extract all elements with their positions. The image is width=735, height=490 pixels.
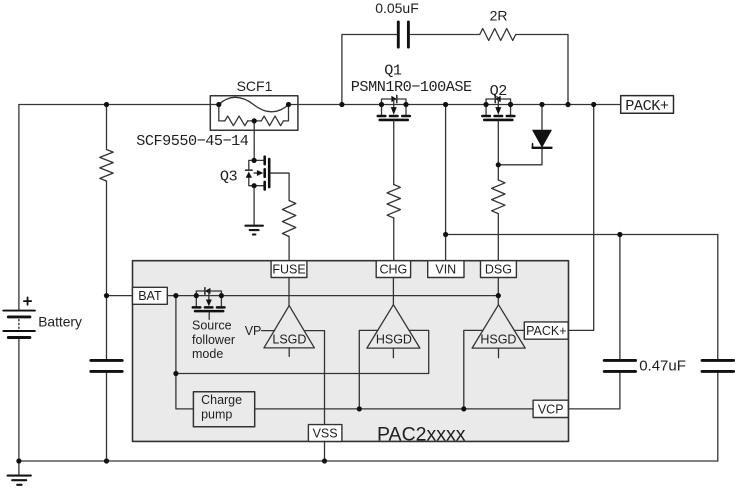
pin box PACK+ internal: [524, 322, 568, 339]
svg-text:HSGD: HSGD: [480, 333, 516, 347]
wire VP input: [262, 330, 275, 332]
resistor R-CHG: [387, 185, 400, 219]
svg-text:SCF9550−45−14: SCF9550−45−14: [136, 132, 249, 150]
svg-text:mode: mode: [192, 347, 223, 361]
resistor R-BAT: [100, 150, 113, 182]
resistor 2R: [480, 29, 516, 41]
wire top rail left: [19, 104, 219, 106]
svg-text:VCP: VCP: [538, 402, 564, 416]
resistor fuse-right: [261, 116, 283, 126]
pin box DSG: [481, 261, 517, 278]
wire top rail right: [289, 104, 621, 106]
capacitor 0.47uF: [604, 360, 635, 371]
charge pump box: [193, 392, 254, 427]
wire diode branch top: [541, 105, 543, 131]
op-amp LSGD: [264, 306, 315, 357]
wire resistor to DSG pin: [497, 214, 499, 261]
transistor Q2: [482, 95, 514, 120]
wire column2 middle: [106, 181, 108, 359]
svg-text:Battery: Battery: [38, 314, 82, 329]
wire CHG pin to HSGD1: [392, 278, 394, 305]
svg-text:CHG: CHG: [380, 263, 408, 277]
wire BAT branch down: [176, 296, 194, 409]
wire 0.47uF column bottom: [568, 373, 620, 409]
terminal PACK+: [621, 96, 674, 114]
fuse element curve: [219, 97, 289, 111]
wire HSGD2 output: [514, 329, 524, 331]
wire resistor to CHG pin: [393, 218, 395, 261]
wire battery column top: [18, 105, 20, 310]
fuse lower path right: [283, 105, 288, 121]
fuse SCF1 box: [210, 96, 298, 131]
wire HSGD2 left input: [464, 330, 483, 409]
wire Q3 source to ground: [253, 186, 255, 226]
wire BAT pin external: [107, 295, 133, 297]
wire DSG pin to HSGD2: [497, 278, 499, 305]
wire VIN column: [445, 105, 447, 261]
resistor R-FUSE: [282, 201, 295, 237]
svg-text:Source: Source: [192, 319, 232, 333]
wire BAT internal: [167, 295, 498, 297]
wire 0.47uF column top: [619, 235, 621, 360]
capacitor 0.05uF: [398, 22, 408, 47]
wire FUSE pin to LSGD: [288, 278, 290, 306]
pin box VSS: [308, 425, 342, 442]
transistor Q3: [246, 157, 270, 190]
wire column2 top: [106, 105, 108, 150]
svg-text:HSGD: HSGD: [376, 333, 412, 347]
svg-text:PSMN1R0−100ASE: PSMN1R0−100ASE: [351, 78, 472, 96]
capacitor C-right: [702, 360, 734, 371]
wire battery column bottom: [18, 339, 20, 461]
transistor Q1: [378, 95, 410, 120]
fuse lower path left: [219, 105, 225, 121]
svg-text:Q2: Q2: [490, 82, 508, 100]
wire column2 bottom: [106, 373, 108, 461]
svg-text:DSG: DSG: [485, 263, 512, 277]
wire Q3 gate: [271, 173, 290, 200]
svg-text:2R: 2R: [490, 8, 508, 24]
battery BT1: [3, 297, 35, 337]
pin box VCP: [533, 400, 568, 417]
resistor R-DSG: [492, 180, 505, 214]
capacitor C-BAT: [91, 360, 122, 371]
wire PACK+ pin column: [568, 105, 594, 331]
wire bottom rail: [19, 460, 718, 462]
wire diode to Q2 gate: [498, 149, 542, 165]
svg-text:pump: pump: [201, 407, 232, 421]
svg-text:VP: VP: [245, 324, 262, 338]
wire VIN tap line: [446, 234, 718, 236]
svg-text:0.47uF: 0.47uF: [639, 357, 686, 374]
wire cap to 2R: [410, 34, 480, 36]
svg-text:PACK+: PACK+: [625, 97, 669, 115]
pin box FUSE: [271, 261, 307, 278]
svg-text:VSS: VSS: [313, 426, 338, 440]
svg-text:BAT: BAT: [138, 289, 162, 303]
source follower FET: [193, 288, 225, 320]
svg-text:0.05uF: 0.05uF: [375, 0, 419, 16]
ground Q3: [245, 226, 263, 235]
wire snubber loop left: [342, 35, 397, 105]
wire right cap column top: [717, 235, 719, 360]
wire Q2 gate: [497, 121, 499, 180]
wire mid branch to HSGD1 right: [176, 330, 429, 373]
ground left: [8, 476, 31, 485]
svg-text:PACK+: PACK+: [526, 324, 566, 338]
wire charge pump output: [255, 408, 533, 410]
svg-text:PAC2xxxx: PAC2xxxx: [377, 423, 466, 445]
IC body PAC2xxxx: [133, 261, 569, 442]
op-amp HSGD2: [472, 305, 525, 358]
svg-text:VIN: VIN: [435, 263, 456, 277]
resistor fuse-left: [225, 116, 248, 126]
svg-text:Charge: Charge: [201, 393, 242, 407]
diode D1: [533, 130, 552, 148]
wire ground lead left: [18, 461, 20, 475]
wire snubber loop right: [516, 35, 568, 105]
wire right cap column bottom: [717, 373, 719, 461]
wire HSGD1 left input: [359, 330, 378, 409]
svg-text:Q3: Q3: [220, 168, 238, 186]
wire fuse mid: [248, 120, 262, 122]
wire VSS to bottom rail: [324, 441, 326, 461]
pin box BAT: [133, 287, 168, 304]
wire resistor to FUSE pin: [288, 237, 290, 261]
wire Q1 gate: [393, 121, 395, 184]
svg-text:FUSE: FUSE: [272, 263, 305, 277]
wire LSGD output to VSS: [304, 331, 324, 425]
pin box VIN: [428, 261, 464, 278]
wire SCF1 tap to Q3: [253, 121, 255, 160]
svg-text:LSGD: LSGD: [272, 333, 306, 347]
op-amp HSGD1: [367, 305, 420, 358]
svg-text:Q1: Q1: [384, 62, 402, 80]
svg-text:follower: follower: [192, 333, 235, 347]
pin box CHG: [376, 261, 410, 278]
svg-text:SCF1: SCF1: [237, 78, 273, 94]
